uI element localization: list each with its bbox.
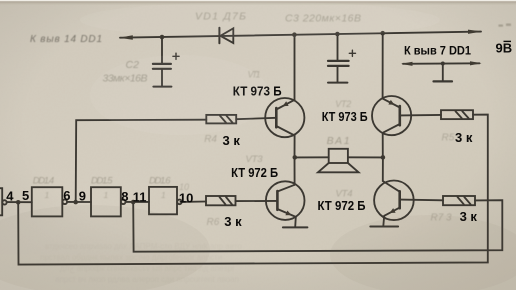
ghost pencil 9 B above label (499, 24, 512, 27)
wire: speaker left lead (295, 156, 329, 158)
label DD1.6 (149, 176, 171, 187)
wire: DD1.5 output to DD1.6 input (126, 201, 150, 203)
pin 4 (6, 188, 14, 203)
node: C2 top junction (160, 35, 165, 40)
svg-text:10: 10 (179, 191, 193, 206)
label C2 (126, 59, 140, 71)
label К выв 7 DD1 (404, 44, 471, 58)
svg-text:4: 4 (6, 188, 14, 203)
node: pin 9 junction (73, 200, 78, 205)
svg-text:К выв 7 DD1: К выв 7 DD1 (404, 44, 471, 58)
wire: VT1 emitter to rail (294, 35, 296, 100)
pin 6 (63, 188, 70, 203)
svg-text:VT3: VT3 (246, 154, 264, 165)
node: pins 4,5 junction (16, 200, 21, 205)
svg-text:КТ 973 Б: КТ 973 Б (322, 109, 368, 124)
arrow to pin 14 DD1 (119, 35, 133, 39)
label КТ 972 Б (VT4) (318, 198, 366, 213)
svg-text:1: 1 (161, 190, 166, 200)
label 3 к (R4) (223, 133, 241, 148)
resistor R4 (206, 115, 236, 124)
transistor VT2 (372, 96, 411, 135)
chassis ground (C3) (328, 82, 347, 84)
svg-text:КТ 972 Б: КТ 972 Б (231, 165, 278, 180)
label КТ 973 Б (VT1) (233, 83, 282, 98)
svg-text:ВА1: ВА1 (327, 135, 350, 147)
svg-text:1: 1 (45, 190, 50, 200)
wire: DD1.3 output to pins 4,5 (7, 201, 32, 203)
label 9В (496, 41, 513, 56)
label BA1 (327, 135, 350, 147)
svg-text:8: 8 (121, 189, 128, 204)
svg-text:R5: R5 (442, 132, 455, 143)
label К выв 14 DD1 (30, 34, 102, 45)
speaker BA1 (318, 149, 359, 173)
wire: R4 to VT1 base (236, 118, 276, 119)
wire: VT1 collector to speaker node (294, 136, 296, 158)
faded pencil labels (30, 11, 455, 229)
label VD1 Д7Б (195, 11, 246, 23)
transistor VT1 (265, 98, 304, 137)
gate DD1.5 (91, 187, 125, 216)
label 3 к (R7) (460, 209, 478, 224)
chassis ground (VT3 emitter) (283, 226, 308, 228)
wire: VT2 emitter to rail (382, 33, 384, 98)
wire: +9V top supply rail (120, 32, 481, 38)
label R4 (204, 134, 217, 145)
label 33мк x 16В (103, 73, 148, 85)
label VT3 (246, 154, 264, 165)
faint bleedthrough text (40, 242, 242, 284)
label 3 к (R6) (224, 214, 242, 229)
svg-text:R4: R4 (204, 134, 217, 145)
chassis ground (C2) (153, 86, 171, 88)
label КТ 973 Б (VT2) (322, 109, 368, 124)
chassis ground (VT4 emitter) (370, 226, 398, 228)
svg-text:КТ 972 Б: КТ 972 Б (318, 198, 366, 213)
pin 8 (121, 189, 128, 204)
svg-text:6: 6 (63, 188, 70, 203)
label R5 (442, 132, 455, 143)
black overlay labels (6, 41, 512, 229)
arrow +9V right end (468, 30, 482, 34)
label C3 220мк x 16В (285, 13, 361, 25)
node: speaker right junction (381, 155, 386, 160)
resistor R6 (206, 196, 236, 205)
transistor VT4 (374, 181, 414, 227)
label 1 inside DD1.4 (45, 190, 50, 200)
wire: DD1.6 output to R6 (182, 201, 206, 203)
svg-text:1: 1 (104, 190, 109, 200)
transistor VT3 (266, 181, 305, 227)
gate DD1.4 (32, 187, 67, 216)
label КТ 972 Б (VT3) (231, 165, 278, 180)
svg-text:3 к: 3 к (223, 133, 241, 148)
wire: DD1.4 output to DD1.5 input (67, 201, 91, 203)
svg-text:3 к: 3 к (224, 214, 242, 229)
node: speaker left junction (293, 155, 298, 160)
node: pin 7 arrow junction (441, 62, 445, 66)
resistor R5 (441, 110, 473, 119)
wire: R6 to VT3 base (236, 200, 278, 202)
svg-text:DD1.5: DD1.5 (91, 176, 113, 187)
node: VT2 emitter rail junction (380, 31, 385, 36)
svg-text:DD1.4: DD1.4 (33, 176, 55, 187)
label DD1.5 (91, 176, 113, 187)
capacitor C2 (153, 37, 179, 86)
svg-text:VT2: VT2 (335, 99, 351, 109)
svg-text:5: 5 (22, 188, 29, 203)
chassis ground (pin 7 DD1) (434, 64, 453, 82)
label 1 inside DD1.6 (161, 190, 166, 200)
pin 5 (22, 188, 29, 203)
node: pin 11 junction (131, 200, 136, 205)
svg-text:R6: R6 (207, 217, 220, 228)
label 3 к (R5) (455, 130, 473, 145)
pin 11 (133, 189, 147, 204)
label 1 inside DD1.5 (104, 190, 109, 200)
wire: VT2 collector to speaker node (382, 133, 384, 158)
wire: node 9 up and over to R4 (76, 120, 207, 202)
diode VD1 (219, 28, 233, 44)
label R7 (431, 213, 453, 224)
label ghost 10 (179, 182, 189, 192)
gate DD1.3 (partial) (0, 188, 7, 215)
pin 10 (179, 191, 193, 206)
wire: speaker right lead (348, 156, 383, 158)
capacitor C3 (328, 34, 356, 82)
label DD1.4 (33, 176, 55, 187)
svg-text:9В: 9В (496, 41, 513, 56)
wire: VT2 base to R5 (400, 114, 441, 117)
label VT2 (335, 99, 351, 109)
svg-text:3 к: 3 к (455, 130, 473, 145)
svg-text:9: 9 (79, 188, 86, 203)
label VT1 (248, 69, 261, 79)
svg-text:DD1.6: DD1.6 (149, 176, 171, 187)
wire: VT4 base to R7 (400, 199, 443, 202)
wire: speaker node to VT4 collector (382, 157, 384, 181)
resistor R7 (443, 196, 475, 205)
svg-text:К выв 14 DD1: К выв 14 DD1 (30, 34, 102, 45)
node: C3 top junction (335, 32, 340, 37)
gate DD1.6 (149, 187, 182, 214)
label VT4 (336, 189, 353, 200)
label R6 (207, 217, 220, 228)
wire: R7 feedback loop to pin 11 (133, 200, 502, 252)
svg-text:11: 11 (133, 189, 147, 204)
wire: speaker node to VT3 collector (294, 157, 296, 184)
wire: pin 7 DD1 double arrow (401, 61, 482, 66)
wire: R5 feedback loop to pins 4,5 (18, 115, 488, 265)
node: VT1 emitter rail junction (292, 32, 297, 37)
pin 9 (79, 188, 86, 203)
